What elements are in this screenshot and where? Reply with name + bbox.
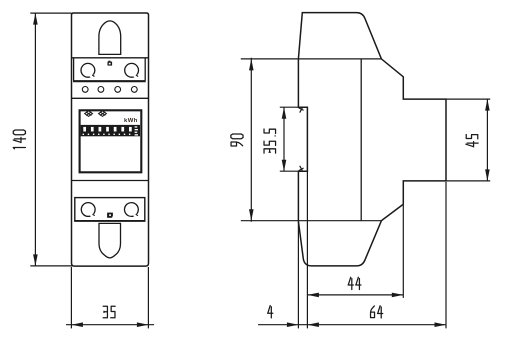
dim 140 dimension line (34, 13, 36, 266)
dim 64 arrow left (shared with dim 4) (307, 322, 319, 327)
lower band left screw (81, 203, 95, 217)
dim 35.5 arrow bottom (282, 160, 287, 172)
lower band sealing icon (107, 213, 113, 218)
dim 140 extension line bottom (30, 265, 72, 267)
upper band small icon (108, 62, 113, 66)
dim 35.5 corner tick top (299, 108, 304, 113)
dim 4 arrow (points right at outer face) (287, 322, 299, 327)
dim 45 value text (466, 134, 478, 146)
digital register band (81, 125, 140, 136)
dim 35.5 corner tick bottom (299, 166, 304, 171)
front view body outline (72, 13, 149, 266)
side view front face edge (360, 59, 362, 221)
dim 140 value text (13, 130, 25, 149)
upper terminal band (74, 58, 146, 80)
dim 90 value text (231, 134, 243, 146)
dim 140 extension line top (30, 12, 71, 14)
dim 35.5 extension line bottom (280, 170, 299, 172)
dim 44 dimension line (307, 294, 403, 296)
side view profile outline (298, 13, 446, 266)
upper band screw slot notches (90, 74, 138, 78)
dim 140 arrow bottom (33, 254, 38, 266)
dim 4 value text (268, 306, 273, 318)
front section line above terminal band (72, 57, 149, 59)
dim 44 extension line right (402, 205, 404, 298)
dim 35 extension line right (147, 267, 149, 328)
dim 35 arrow left (71, 322, 83, 327)
dim 35 extension line left (70, 267, 72, 328)
meter face plate (thick frame) (80, 110, 142, 172)
front top mounting tongue (arch) (99, 21, 121, 55)
dim 64 extension line right (445, 182, 447, 329)
side view bottom shoulder edge (241, 220, 382, 222)
front section line below meter face (72, 180, 149, 182)
dim 4 and 64 extension line inner (306, 171, 308, 328)
dim 35 arrow right (137, 322, 149, 327)
dim 90 arrow bottom (249, 209, 254, 221)
dim 64 value text (371, 306, 383, 318)
dim 35 value text (103, 306, 115, 318)
dim 45 dimension line (486, 99, 488, 181)
dim 140 arrow top (33, 13, 38, 25)
dim 45 arrow top (485, 99, 490, 111)
dim 44 arrow right (392, 293, 404, 298)
dim 64 arrow right (435, 322, 447, 327)
row of four vent holes (82, 87, 88, 93)
dim 4 and 64 dimension line (258, 324, 446, 326)
lower band right screw (124, 203, 138, 217)
dim 45 arrow bottom (485, 169, 490, 181)
dim 35 dimension line (66, 324, 154, 326)
front section line above meter face (72, 97, 149, 99)
lower band screw slot notches (90, 213, 138, 217)
dim 35.5 dimension line (283, 107, 285, 171)
dim 44 value text (348, 277, 361, 289)
svg-text:kWh: kWh (124, 118, 138, 124)
face seal screw right (99, 111, 107, 117)
dim 35.5 arrow top (282, 107, 287, 119)
lower terminal band (75, 198, 145, 221)
dim 45 extension line top (446, 98, 490, 100)
dim 44 arrow left (307, 293, 319, 298)
face seal screw left (85, 111, 93, 117)
dim 35.5 value text (264, 129, 276, 153)
dim 45 extension line bottom (446, 180, 490, 182)
upper band left screw (81, 63, 95, 77)
front bottom tongue (99, 223, 121, 258)
side view top shoulder edge (241, 58, 382, 60)
dim 4 and 64 extension line outer (297, 222, 299, 328)
dim 90 dimension line (250, 58, 252, 222)
dim 90 arrow top (249, 59, 254, 71)
upper band right screw (125, 63, 139, 77)
dim 35.5 extension line top (280, 106, 299, 108)
